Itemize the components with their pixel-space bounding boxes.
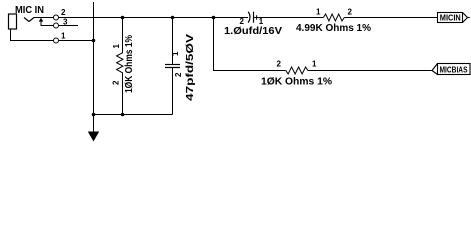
jack pin 3 circle (54, 23, 59, 28)
svg-text:2: 2 (277, 60, 282, 69)
resistor R2 4.99K body (323, 14, 344, 21)
junction C top (171, 16, 175, 20)
capacitor C 47pfd top lead (172, 18, 174, 65)
svg-text:1: 1 (61, 32, 66, 41)
port MICIN stub (468, 17, 470, 19)
capacitor C2 straight plate (253, 12, 255, 23)
port MICBIAS chevron (432, 64, 438, 75)
capacitor C lower plate (165, 67, 180, 69)
svg-text:MICIN: MICIN (440, 12, 461, 22)
svg-text:1: 1 (171, 51, 180, 56)
svg-text:47pfd/5ØV: 47pfd/5ØV (185, 34, 196, 101)
wire resistor to MICIN port (344, 17, 437, 19)
resistor R3 10K body (286, 67, 308, 74)
svg-text:1ØK Ohms 1%: 1ØK Ohms 1% (261, 76, 332, 87)
port MICIN chevron (463, 13, 468, 23)
jack tip contact V (24, 18, 34, 22)
capacitor C2 plus sign (255, 15, 259, 20)
wire bottom rail (94, 114, 173, 116)
capacitor C2 1.0ufd curved plate (248, 12, 250, 23)
svg-text:MIC IN: MIC IN (15, 5, 44, 16)
junction R top (121, 16, 125, 20)
jack pin 1 circle (54, 38, 59, 43)
wire tip to top rail (34, 17, 53, 19)
wire pin3 stub (59, 25, 78, 27)
capacitor C upper plate (165, 64, 180, 66)
ground arrow (88, 132, 99, 142)
junction bottom rail left (92, 113, 96, 117)
jack switch stem wire (41, 22, 54, 26)
junction pin1/ground (92, 39, 96, 43)
connector J1 MIC IN jack body (9, 14, 17, 29)
jack pin 2 circle (54, 15, 59, 20)
port MICBIAS box (438, 64, 471, 75)
jack sleeve wire from body (11, 29, 54, 41)
svg-text:2: 2 (61, 8, 66, 17)
svg-text:1ØK Ohms 1%: 1ØK Ohms 1% (124, 35, 135, 93)
ground stem (93, 115, 95, 133)
svg-text:2: 2 (174, 72, 183, 77)
wire pin1 to ground net (59, 40, 94, 42)
wire resistor to MICBIAS port (308, 70, 432, 72)
port MICIN box (438, 13, 463, 23)
jack switch arrow (39, 18, 44, 22)
junction bias tap (212, 16, 216, 20)
svg-text:1: 1 (112, 44, 121, 49)
svg-text:4.99K Ohms 1%: 4.99K Ohms 1% (296, 23, 371, 34)
wire top rail left segment (59, 17, 248, 19)
svg-text:1: 1 (259, 17, 264, 26)
wire cap to resistor (254, 17, 324, 19)
capacitor C bottom lead (172, 68, 174, 115)
svg-text:2: 2 (240, 17, 245, 26)
wire bias vertical (214, 18, 286, 71)
resistor R vertical 10K body (117, 18, 123, 115)
svg-text:2: 2 (348, 8, 353, 17)
wire ground vertical (93, 2, 95, 115)
svg-text:2: 2 (112, 80, 121, 85)
svg-text:MICBIAS: MICBIAS (440, 65, 469, 74)
svg-text:1: 1 (312, 60, 317, 69)
junction R bottom (121, 113, 125, 117)
svg-text:1: 1 (316, 8, 321, 17)
svg-text:1.Øufd/16V: 1.Øufd/16V (224, 26, 282, 37)
